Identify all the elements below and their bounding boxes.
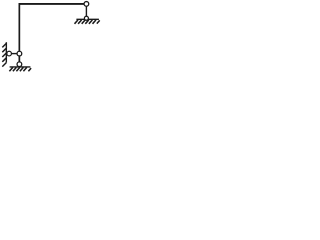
pin joint: top-right lower hinge [84,16,88,20]
pin joint: wall hinge of left support [7,51,12,56]
pin joint: column hinge of left support [17,51,22,56]
pin joint: bottom hinge of column [17,62,22,67]
ground hatching: top-right support [75,20,100,24]
wire: horizontal link of left support [6,53,19,55]
wall hatching: left link support [2,43,6,66]
pin joint: top-right upper hinge [84,2,89,7]
ground line: top-right support [76,18,99,20]
wall line: left link support [5,42,7,62]
ground line: bottom support [10,66,31,68]
wire: vertical link of top-right support [85,4,87,18]
ground hatching: bottom support [9,67,31,71]
member: left vertical column [18,3,20,64]
member: top horizontal beam [19,3,87,5]
